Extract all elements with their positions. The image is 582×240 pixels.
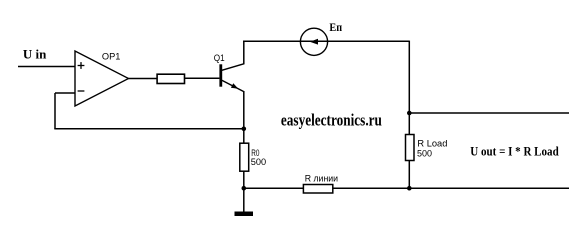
- resistor R0 body: [240, 143, 249, 171]
- wire minus input: [55, 92, 75, 94]
- ground: [235, 212, 254, 217]
- source En circle: [300, 28, 327, 55]
- wire feedback vertical: [54, 93, 56, 129]
- wire bottom rail mid: [333, 187, 410, 189]
- svg-text:500: 500: [417, 148, 432, 158]
- svg-text:U in: U in: [23, 47, 47, 62]
- source En arrow: [310, 39, 318, 45]
- wire node to R0: [243, 129, 245, 143]
- transistor Q1 emitter lead: [222, 80, 244, 91]
- wire bottom rail left: [244, 187, 304, 189]
- transistor Q1 base bar: [219, 64, 222, 86]
- node junction ground rail: [242, 186, 247, 191]
- svg-text:Eп: Eп: [329, 20, 342, 34]
- node junction out bottom: [407, 186, 412, 191]
- wire feedback horizontal: [54, 128, 244, 130]
- wire right vertical: [408, 41, 410, 189]
- op-amp U1 OP1 triangle: [75, 51, 129, 106]
- wire ground stem: [243, 188, 245, 211]
- svg-text:R Load: R Load: [417, 139, 447, 149]
- wire collector vertical: [243, 41, 245, 65]
- node junction feedback/emitter: [242, 127, 247, 132]
- svg-text:R линии: R линии: [305, 174, 338, 184]
- svg-text:OP1: OP1: [102, 52, 121, 62]
- svg-text:U out = I * R Load: U out = I * R Load: [470, 143, 559, 158]
- transistor Q1 collector lead: [222, 64, 244, 71]
- wire emitter vertical to node: [243, 91, 245, 129]
- resistor R linii body: [303, 185, 332, 194]
- op-amp minus input marker: [78, 90, 85, 92]
- transistor Q1 emitter arrow: [231, 83, 238, 89]
- wire op-amp output: [129, 78, 158, 80]
- resistor R1 series (unlabeled): [157, 74, 184, 83]
- resistor R Load body: [406, 135, 415, 161]
- wire resistor to base: [185, 77, 220, 79]
- node junction out top: [407, 111, 412, 116]
- wire out rail bottom: [409, 187, 569, 189]
- svg-text:easyelectronics.ru: easyelectronics.ru: [281, 111, 382, 130]
- svg-text:500: 500: [251, 157, 266, 167]
- wire out rail top: [409, 112, 569, 114]
- op-amp plus input marker: [78, 62, 85, 69]
- wire R0 to ground node: [243, 171, 245, 188]
- svg-text:Q1: Q1: [214, 53, 225, 63]
- wire top rail: [243, 40, 409, 42]
- wire input to op-amp +: [18, 66, 75, 68]
